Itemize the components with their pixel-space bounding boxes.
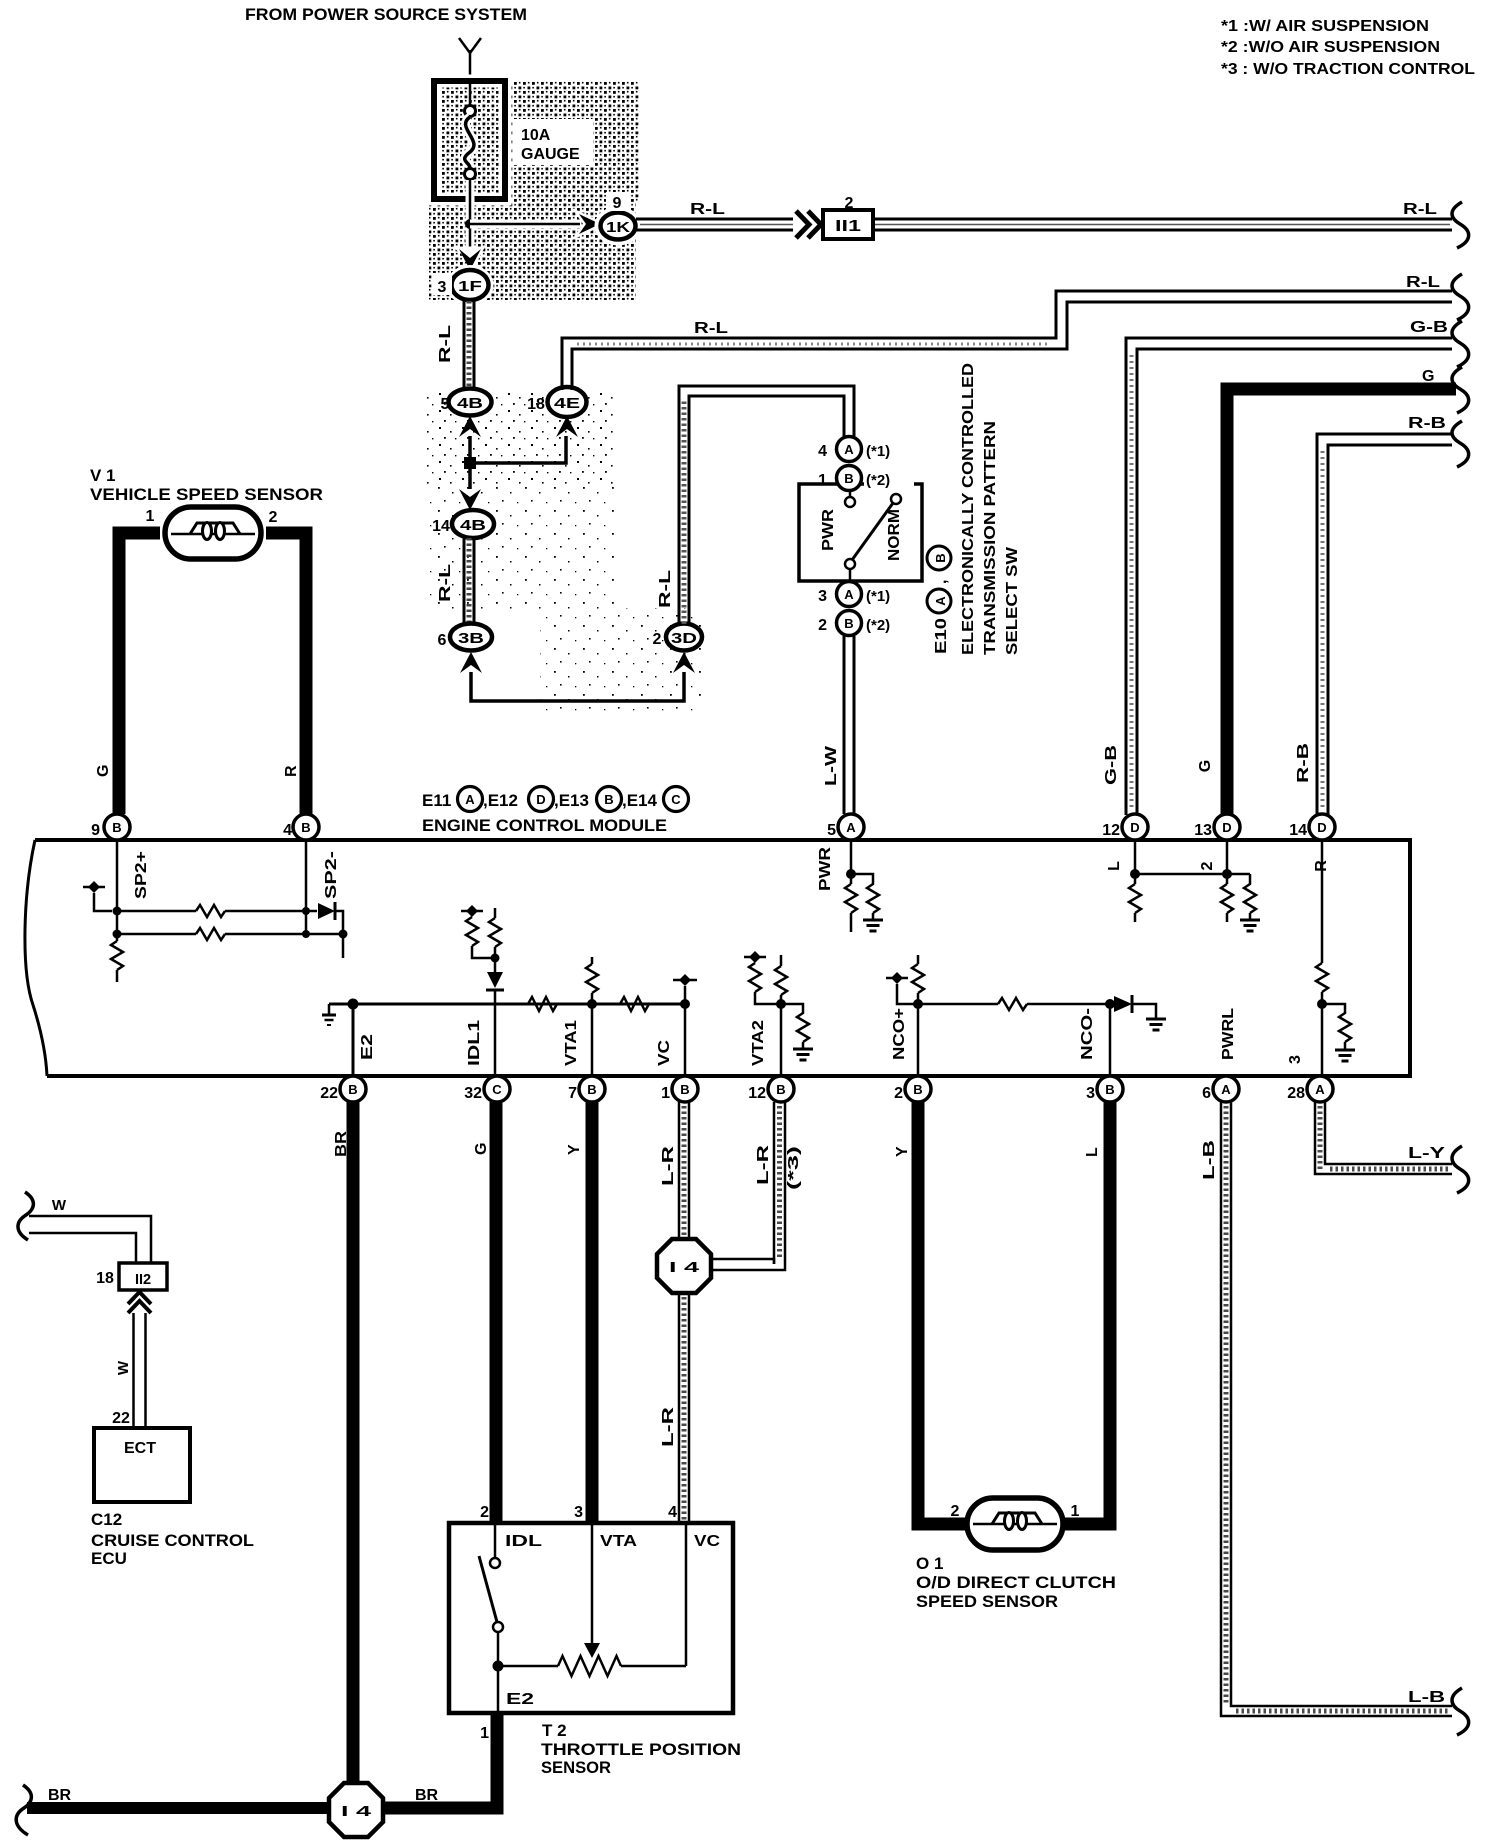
label 10A GAUGE: [514, 119, 593, 165]
double chevron up below II2: [128, 1292, 151, 1313]
svg-text:G: G: [1422, 368, 1434, 385]
svg-text:9: 9: [91, 822, 100, 839]
connector II2: [119, 1263, 167, 1290]
svg-text:R: R: [283, 765, 300, 777]
svg-text:1K: 1K: [606, 219, 630, 236]
splice I4 (octagon on BR): [329, 1783, 383, 1837]
label E2 (ECM): [359, 1034, 376, 1060]
svg-text:SELECT SW: SELECT SW: [1004, 546, 1021, 655]
ground (VTA2 branch): [793, 1049, 813, 1060]
label THROTTLE POSITION: [541, 1740, 741, 1759]
fuse 10A GAUGE: [434, 81, 505, 199]
svg-text:VEHICLE SPEED SENSOR: VEHICLE SPEED SENSOR: [90, 485, 323, 504]
pin 2 of V1: [269, 509, 278, 526]
svg-text:A: A: [1221, 1082, 1231, 1097]
svg-text:R-L: R-L: [657, 570, 674, 608]
label G (riser): [1197, 760, 1214, 772]
label G (TPS feed): [473, 1143, 490, 1155]
label O 1: [916, 1554, 943, 1573]
svg-text:R-L: R-L: [1403, 201, 1437, 218]
svg-text:Y: Y: [566, 1144, 583, 1155]
wire BR from ECM 22B down to splice I4: [347, 1102, 360, 1786]
VTA2 internal: resistor on 12B line: [775, 955, 787, 1076]
label C12: [91, 1510, 122, 1529]
wire L-R from splice I4 down to TPS pin4: [679, 1293, 689, 1523]
svg-text:10A: 10A: [521, 127, 551, 144]
junction below fuse: [465, 219, 475, 229]
svg-text:L-W: L-W: [823, 745, 840, 786]
svg-text:R-B: R-B: [1295, 743, 1312, 783]
label E11(A),E12(D),E13(B),E14(C): [422, 787, 689, 812]
pin 1 of V1: [146, 508, 155, 525]
label PWR (ECM): [817, 846, 834, 891]
svg-text:G: G: [473, 1143, 490, 1155]
label G-B right: [1410, 319, 1448, 336]
arrow down into 4B(14): [459, 489, 481, 510]
wire junction down to 14-4B: [468, 463, 472, 489]
svg-text:L-B: L-B: [1201, 1140, 1218, 1180]
ECM terminal 12 (D): [1102, 814, 1148, 840]
svg-text:O/D DIRECT CLUTCH: O/D DIRECT CLUTCH: [916, 1573, 1116, 1592]
NCO row: resistor, junction, diode to ground: [918, 995, 1156, 1019]
TPS pin 4: [668, 1504, 677, 1521]
R internal: 14D line down to 28A with resistor: [1316, 840, 1328, 1076]
label G (V1): [95, 765, 112, 777]
label R (ECM): [1313, 860, 1330, 872]
wire G (thick) from right edge down to ECM 13D: [1227, 389, 1456, 815]
label SELECT SW: [1004, 546, 1021, 655]
ECM terminal 9 (B): [91, 814, 130, 840]
branch resistor to ground (13D): [1244, 874, 1256, 920]
wire junction to connector 1K: [470, 220, 580, 229]
svg-text:14: 14: [1289, 822, 1307, 839]
title FROM POWER SOURCE SYSTEM: [245, 5, 527, 24]
svg-text:1: 1: [146, 508, 155, 525]
svg-text:W: W: [115, 1360, 132, 1375]
svg-text:PWRL: PWRL: [1220, 1008, 1237, 1060]
splice I4 branch wire to 12B: [711, 1259, 785, 1270]
resistor below 13D: [1221, 884, 1233, 922]
wire L-Y from ECM 28A down and right to edge: [1315, 1102, 1452, 1174]
VTA2 internal: branch resistor to ground: [781, 1004, 809, 1049]
label NCO+: [891, 1008, 908, 1060]
connector 3B pin 6: [438, 624, 492, 651]
ECM terminal 13 (D): [1194, 814, 1240, 840]
svg-text:22: 22: [112, 1410, 130, 1427]
resistor below 12D: [1129, 884, 1141, 922]
svg-text:SPEED SENSOR: SPEED SENSOR: [916, 1592, 1058, 1611]
svg-text:C: C: [492, 1082, 502, 1097]
svg-text:I 4: I 4: [341, 1803, 372, 1820]
pin 18 of II2: [96, 1270, 114, 1287]
label BR (left): [48, 1787, 72, 1804]
wire R-L from 4E up then right then up to right edge: [562, 291, 1452, 390]
svg-text:A: A: [933, 596, 948, 606]
svg-text:R-B: R-B: [1408, 415, 1446, 432]
TPS pin 3: [574, 1504, 583, 1521]
ground (PWR branch): [863, 920, 883, 931]
legend note *1: [1221, 18, 1429, 35]
label E2 (TPS): [506, 1691, 534, 1708]
svg-text:B: B: [844, 616, 853, 631]
TPS potentiometer: [498, 1523, 686, 1676]
svg-text:2: 2: [269, 509, 278, 526]
PWR internal: resistor on main line: [845, 884, 857, 932]
legend note *3: [1221, 61, 1475, 78]
label SP2-: [323, 851, 340, 899]
svg-text:BR: BR: [415, 1787, 439, 1804]
svg-text:3D: 3D: [671, 630, 697, 647]
label R-L right top: [1403, 201, 1437, 218]
arrow up into 4E: [556, 416, 578, 437]
svg-text:II2: II2: [135, 1272, 151, 1288]
label G right: [1422, 368, 1434, 385]
wire R-B from right edge down to ECM 14D: [1317, 434, 1452, 815]
wire G-B from right edge down to ECM 12D: [1126, 338, 1452, 815]
svg-text:*3 : W/O TRACTION CONTROL: *3 : W/O TRACTION CONTROL: [1221, 61, 1475, 78]
svg-text:L-Y: L-Y: [1408, 1145, 1445, 1162]
svg-text:E2: E2: [506, 1691, 534, 1708]
svg-text:A: A: [465, 792, 475, 807]
svg-text:O 1: O 1: [916, 1554, 943, 1573]
label IDL1: [466, 1020, 483, 1066]
E2 internal rail: [329, 999, 686, 1077]
label TRANSMISSION PATTERN: [982, 421, 999, 655]
svg-text:28: 28: [1287, 1085, 1305, 1102]
svg-text:A: A: [1315, 1082, 1325, 1097]
svg-text:,E14: ,E14: [622, 791, 658, 810]
pin 2 of O/D sensor: [951, 1503, 960, 1520]
svg-text:2: 2: [845, 195, 854, 212]
wire L-B from ECM 6A down and right to edge: [1221, 1102, 1452, 1716]
svg-text:B: B: [680, 1082, 689, 1097]
svg-text:B: B: [112, 820, 121, 835]
ECM terminal 4 (B): [283, 814, 319, 840]
svg-text:ENGINE CONTROL MODULE: ENGINE CONTROL MODULE: [422, 816, 667, 835]
connector 1F: [450, 269, 490, 302]
VTA1 internal: resistor up: [586, 957, 598, 1076]
TPS pin 2: [480, 1504, 489, 1521]
svg-text:3: 3: [818, 588, 827, 605]
svg-text:(*1): (*1): [866, 588, 890, 605]
label PWR inside switch: [820, 508, 837, 551]
rail resistor VTA1-VC: [620, 997, 649, 1011]
svg-text:BR: BR: [48, 1787, 72, 1804]
arrow up into 3D: [673, 652, 695, 673]
svg-text:2: 2: [818, 617, 827, 634]
SP2 junction 1: [113, 907, 122, 916]
label R-L (4B-3B): [437, 564, 454, 602]
svg-text:TRANSMISSION PATTERN: TRANSMISSION PATTERN: [982, 421, 999, 655]
svg-text:G: G: [1197, 760, 1214, 772]
svg-text:R-L: R-L: [694, 320, 728, 337]
svg-text:A: A: [844, 442, 854, 457]
svg-text:ELECTRONICALLY CONTROLLED: ELECTRONICALLY CONTROLLED: [960, 363, 977, 655]
wire R-L from 1K to right edge: [636, 219, 1452, 230]
svg-text:B: B: [301, 820, 310, 835]
wire 4B to junction to 4E: [470, 436, 566, 463]
svg-text:L: L: [1084, 1147, 1101, 1157]
svg-text:B: B: [933, 553, 948, 562]
svg-text:D: D: [1222, 820, 1231, 835]
wire from TPS pin1 down to BR run: [380, 1713, 497, 1808]
label NORM inside switch: [886, 509, 903, 561]
wire BR bottom run left of splice: [27, 1802, 332, 1814]
wire from power source (down arrow head): [459, 38, 481, 81]
wire R from V1 pin2 to ECM 4B: [266, 533, 306, 814]
PWR internal: 5A line and junction: [846, 840, 856, 884]
svg-text:CRUISE CONTROL: CRUISE CONTROL: [91, 1531, 254, 1550]
SP2 internal: 9B line down: [116, 840, 119, 941]
svg-text:12: 12: [748, 1085, 766, 1102]
label VEHICLE SPEED SENSOR: [90, 485, 323, 504]
svg-text:I 4: I 4: [669, 1259, 700, 1276]
svg-text:1: 1: [480, 1725, 489, 1742]
wire L-R(*3) from ECM 12B down to splice branch: [774, 1102, 785, 1264]
pin 1 (B) (*2) of select switch: [818, 466, 914, 491]
label IDL: [505, 1533, 542, 1550]
svg-text:NORM: NORM: [886, 509, 903, 561]
L/2 internal: 12D and 13D lines joined: [1130, 840, 1250, 884]
svg-text:L-B: L-B: [1408, 1689, 1445, 1706]
svg-text:NCO+: NCO+: [891, 1008, 908, 1060]
svg-text:22: 22: [320, 1085, 338, 1102]
svg-text:C: C: [671, 792, 681, 807]
halftone shading around fuse: [429, 81, 640, 300]
svg-text:1: 1: [661, 1085, 670, 1102]
svg-text:4B: 4B: [457, 395, 483, 412]
pin 2 (B) (*2) of select switch: [818, 611, 890, 636]
label W (riser): [115, 1360, 132, 1375]
IDL1 internal: diamond stub with resistor: [461, 905, 495, 958]
svg-text:1F: 1F: [458, 278, 482, 295]
VTA2 internal: diamond stub with resistor: [744, 951, 781, 1004]
svg-text:4: 4: [283, 822, 292, 839]
svg-text:*1 :W/ AIR SUSPENSION: *1 :W/ AIR SUSPENSION: [1221, 18, 1429, 35]
label L-B (riser): [1201, 1140, 1218, 1180]
connector 1K: [599, 211, 637, 241]
svg-text:R-L: R-L: [437, 564, 454, 602]
SP2 upper row with resistor and diode: [117, 902, 343, 934]
label VTA2: [750, 1020, 767, 1066]
wire R-L 4B(14) to 3B: [464, 538, 474, 624]
ground (13D branch): [1240, 920, 1260, 931]
connector 3D pin 2: [653, 624, 702, 651]
svg-text:(*2): (*2): [866, 617, 890, 634]
svg-text:GAUGE: GAUGE: [521, 146, 580, 163]
ECM terminal 1 (B): [661, 1076, 698, 1102]
svg-text:7: 7: [568, 1085, 577, 1102]
pin 3 of 1F: [432, 273, 452, 296]
pin 4 (A) (*1) of select switch: [818, 437, 890, 462]
TPS junction E2: [493, 1661, 504, 1672]
label R-L (1K run): [685, 200, 729, 218]
label R-L (4E run): [694, 320, 728, 337]
svg-text:B: B: [604, 792, 613, 807]
svg-text:3: 3: [1287, 1055, 1304, 1064]
label L-R (12B): [755, 1144, 772, 1185]
svg-text:5: 5: [441, 396, 450, 413]
svg-text:VC: VC: [656, 1039, 673, 1066]
TPS pin 1: [480, 1725, 489, 1742]
ECM terminal 32 (C): [464, 1076, 510, 1102]
continuation curl G-B: [1452, 321, 1469, 367]
PWR internal: branch resistor to ground: [851, 874, 879, 920]
connector 4B pin 14: [432, 510, 494, 538]
ECM terminal 14 (D): [1289, 814, 1335, 840]
svg-text:,: ,: [933, 580, 950, 584]
svg-text:R-L: R-L: [437, 325, 454, 363]
continuation curl L-B: [1452, 1688, 1469, 1735]
cruise control ECU box with ECT terminal: [94, 1428, 190, 1502]
label L-B (bottom right): [1408, 1689, 1445, 1706]
svg-text:A: A: [844, 587, 854, 602]
label L (ECM): [1106, 861, 1123, 871]
label CRUISE CONTROL: [91, 1531, 254, 1550]
label SP2+: [133, 851, 150, 899]
svg-text:IDL: IDL: [505, 1533, 542, 1550]
label SPEED SENSOR: [916, 1592, 1058, 1611]
svg-text:4B: 4B: [460, 517, 486, 534]
svg-text:PWR: PWR: [820, 508, 837, 551]
label BR (right of splice): [415, 1787, 439, 1804]
ground (28A branch): [1335, 1050, 1355, 1061]
svg-text:Y: Y: [894, 1146, 911, 1157]
ECM terminal 6 (A): [1202, 1076, 1239, 1102]
svg-text:3B: 3B: [458, 630, 484, 647]
svg-text:V 1: V 1: [90, 466, 116, 485]
pin 9 of 1K: [606, 192, 630, 212]
light speckle around connectors 4B/4E: [425, 390, 705, 713]
svg-text:D: D: [536, 792, 545, 807]
pattern select switch box: [799, 484, 922, 581]
arrow up into 4B: [459, 416, 481, 437]
TPS idle switch: [479, 1523, 503, 1666]
VC internal: diamond stub: [673, 974, 697, 1076]
svg-text:NCO-: NCO-: [1079, 1008, 1096, 1060]
continuation curl L-Y: [1452, 1146, 1469, 1193]
svg-text:SENSOR: SENSOR: [541, 1758, 611, 1777]
svg-text:13: 13: [1194, 822, 1212, 839]
svg-text:ECU: ECU: [91, 1549, 127, 1568]
continuation curl R-B: [1452, 421, 1469, 467]
TPS E2 line to pin 1: [497, 1666, 500, 1713]
label PWRL: [1220, 1008, 1237, 1060]
label L-R (lower): [660, 1406, 677, 1447]
label R-B (riser): [1295, 743, 1312, 783]
label G-B (riser): [1103, 745, 1120, 785]
pin 2 of II1: [845, 195, 854, 212]
svg-text:L: L: [1106, 861, 1123, 871]
svg-text:*2 :W/O AIR SUSPENSION: *2 :W/O AIR SUSPENSION: [1221, 39, 1440, 56]
wire L-R from ECM 1B down to splice I4: [679, 1102, 689, 1240]
NCO+ internal: resistor up on 2B line: [912, 955, 924, 1076]
connector II1: [823, 210, 873, 239]
ECM terminal 5 (A): [827, 814, 864, 840]
svg-text:4: 4: [668, 1504, 677, 1521]
connector 4B pin 5: [441, 389, 492, 416]
svg-text:T 2: T 2: [542, 1721, 567, 1740]
svg-text:L-R: L-R: [660, 1406, 677, 1447]
throttle position sensor box: [449, 1523, 733, 1713]
svg-text:(*2): (*2): [866, 472, 890, 489]
ECM terminal 12 (B): [748, 1076, 794, 1102]
svg-text:IDL1: IDL1: [466, 1020, 483, 1066]
svg-text:3: 3: [1086, 1085, 1095, 1102]
pin 22 of ECT: [112, 1410, 130, 1427]
svg-text:32: 32: [464, 1085, 482, 1102]
pin 3 (A) (*1) of select switch: [818, 582, 890, 607]
label R-L right mid: [1406, 274, 1440, 291]
wire Y from ECM 7B down to TPS pin3: [586, 1102, 599, 1523]
svg-text:3: 3: [574, 1504, 583, 1521]
svg-text:2: 2: [480, 1504, 489, 1521]
svg-text:C12: C12: [91, 1510, 122, 1529]
label 2 (ECM): [1199, 861, 1216, 870]
connector 4E pin 18: [527, 387, 586, 417]
vehicle speed sensor V1 body: [165, 507, 261, 559]
svg-text:14: 14: [432, 518, 450, 535]
label NCO-: [1079, 1008, 1096, 1060]
svg-text:1: 1: [1071, 1503, 1080, 1520]
svg-text:A: A: [846, 820, 856, 835]
junction below 4B: [464, 457, 476, 469]
svg-text:R-L: R-L: [1406, 274, 1440, 291]
label (*3): [785, 1146, 802, 1190]
svg-text:D: D: [1130, 820, 1139, 835]
TPS wiper arrow from VTA: [584, 1523, 600, 1658]
wire R-L from 3D up and over to pattern select switch pin 4A: [679, 386, 854, 624]
SP2 internal: stub symbol: [83, 881, 112, 911]
wire W to connector II2: [29, 1216, 151, 1263]
svg-text:E10: E10: [933, 618, 950, 654]
svg-text:G: G: [95, 765, 112, 777]
SP2 lower row with resistor: [117, 928, 348, 958]
svg-text:(*1): (*1): [866, 443, 890, 460]
label L (O/D): [1084, 1147, 1101, 1157]
svg-text:B: B: [1105, 1082, 1114, 1097]
label L-Y: [1408, 1145, 1445, 1162]
ECM terminal 2 (B): [894, 1076, 931, 1102]
IDL1 internal: resistor and diode on 32C line: [486, 908, 504, 1076]
label E10 (A),(B): [927, 546, 951, 654]
label VTA: [600, 1533, 638, 1550]
wire G from ECM 32C down to TPS pin2: [490, 1102, 503, 1523]
ground (NCO row): [1146, 1019, 1166, 1030]
label VC: [694, 1533, 721, 1550]
svg-text:PWR: PWR: [817, 846, 834, 891]
svg-text:5: 5: [827, 822, 836, 839]
SP2 4B line down: [305, 840, 308, 934]
ECM terminal 22 (B): [320, 1076, 366, 1102]
label T 2: [542, 1721, 567, 1740]
svg-text:VC: VC: [694, 1533, 721, 1550]
wire R-L 1F to 4B: [464, 301, 474, 389]
svg-text:B: B: [587, 1082, 596, 1097]
svg-text:6: 6: [1202, 1085, 1211, 1102]
svg-text:R-L: R-L: [690, 201, 725, 218]
svg-text:SP2-: SP2-: [323, 851, 340, 899]
continuation curl R-L mid: [1452, 274, 1469, 320]
wire G from V1 pin1 to ECM 9B: [119, 533, 160, 814]
svg-text:2: 2: [894, 1085, 903, 1102]
svg-text:W: W: [52, 1197, 67, 1214]
label ENGINE CONTROL MODULE: [422, 816, 667, 835]
svg-text:G-B: G-B: [1410, 319, 1448, 336]
arrow up into 3B: [460, 652, 482, 673]
label Y (O/D): [894, 1146, 911, 1157]
label ECU: [91, 1549, 127, 1568]
